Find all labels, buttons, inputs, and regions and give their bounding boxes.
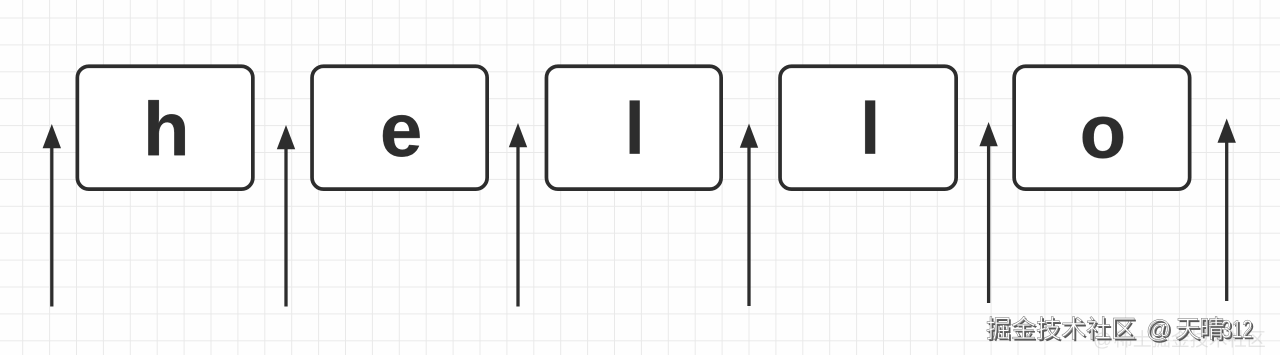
- letter h: [148, 100, 184, 155]
- arrow 3: [509, 123, 527, 307]
- watermark shadow 掘金技术社区 @ 天晴312: [988, 318, 1253, 343]
- arrow 6: [1218, 119, 1236, 302]
- box o: [1014, 66, 1190, 189]
- letter l: [630, 100, 640, 153]
- arrow 4: [740, 124, 758, 307]
- letter l: [865, 100, 875, 153]
- watermark white 掘金技术社区 @ 天晴312: [987, 316, 1252, 341]
- arrow 2: [277, 125, 295, 307]
- arrow 1: [43, 124, 61, 307]
- box l2: [780, 66, 956, 189]
- box l: [546, 66, 721, 189]
- box e: [312, 66, 487, 189]
- letter o: [1083, 117, 1123, 159]
- letter e: [383, 115, 420, 157]
- arrow 5: [979, 122, 997, 303]
- watermark faint @稀土掘金技术社区: [1094, 330, 1264, 349]
- box h: [77, 66, 253, 189]
